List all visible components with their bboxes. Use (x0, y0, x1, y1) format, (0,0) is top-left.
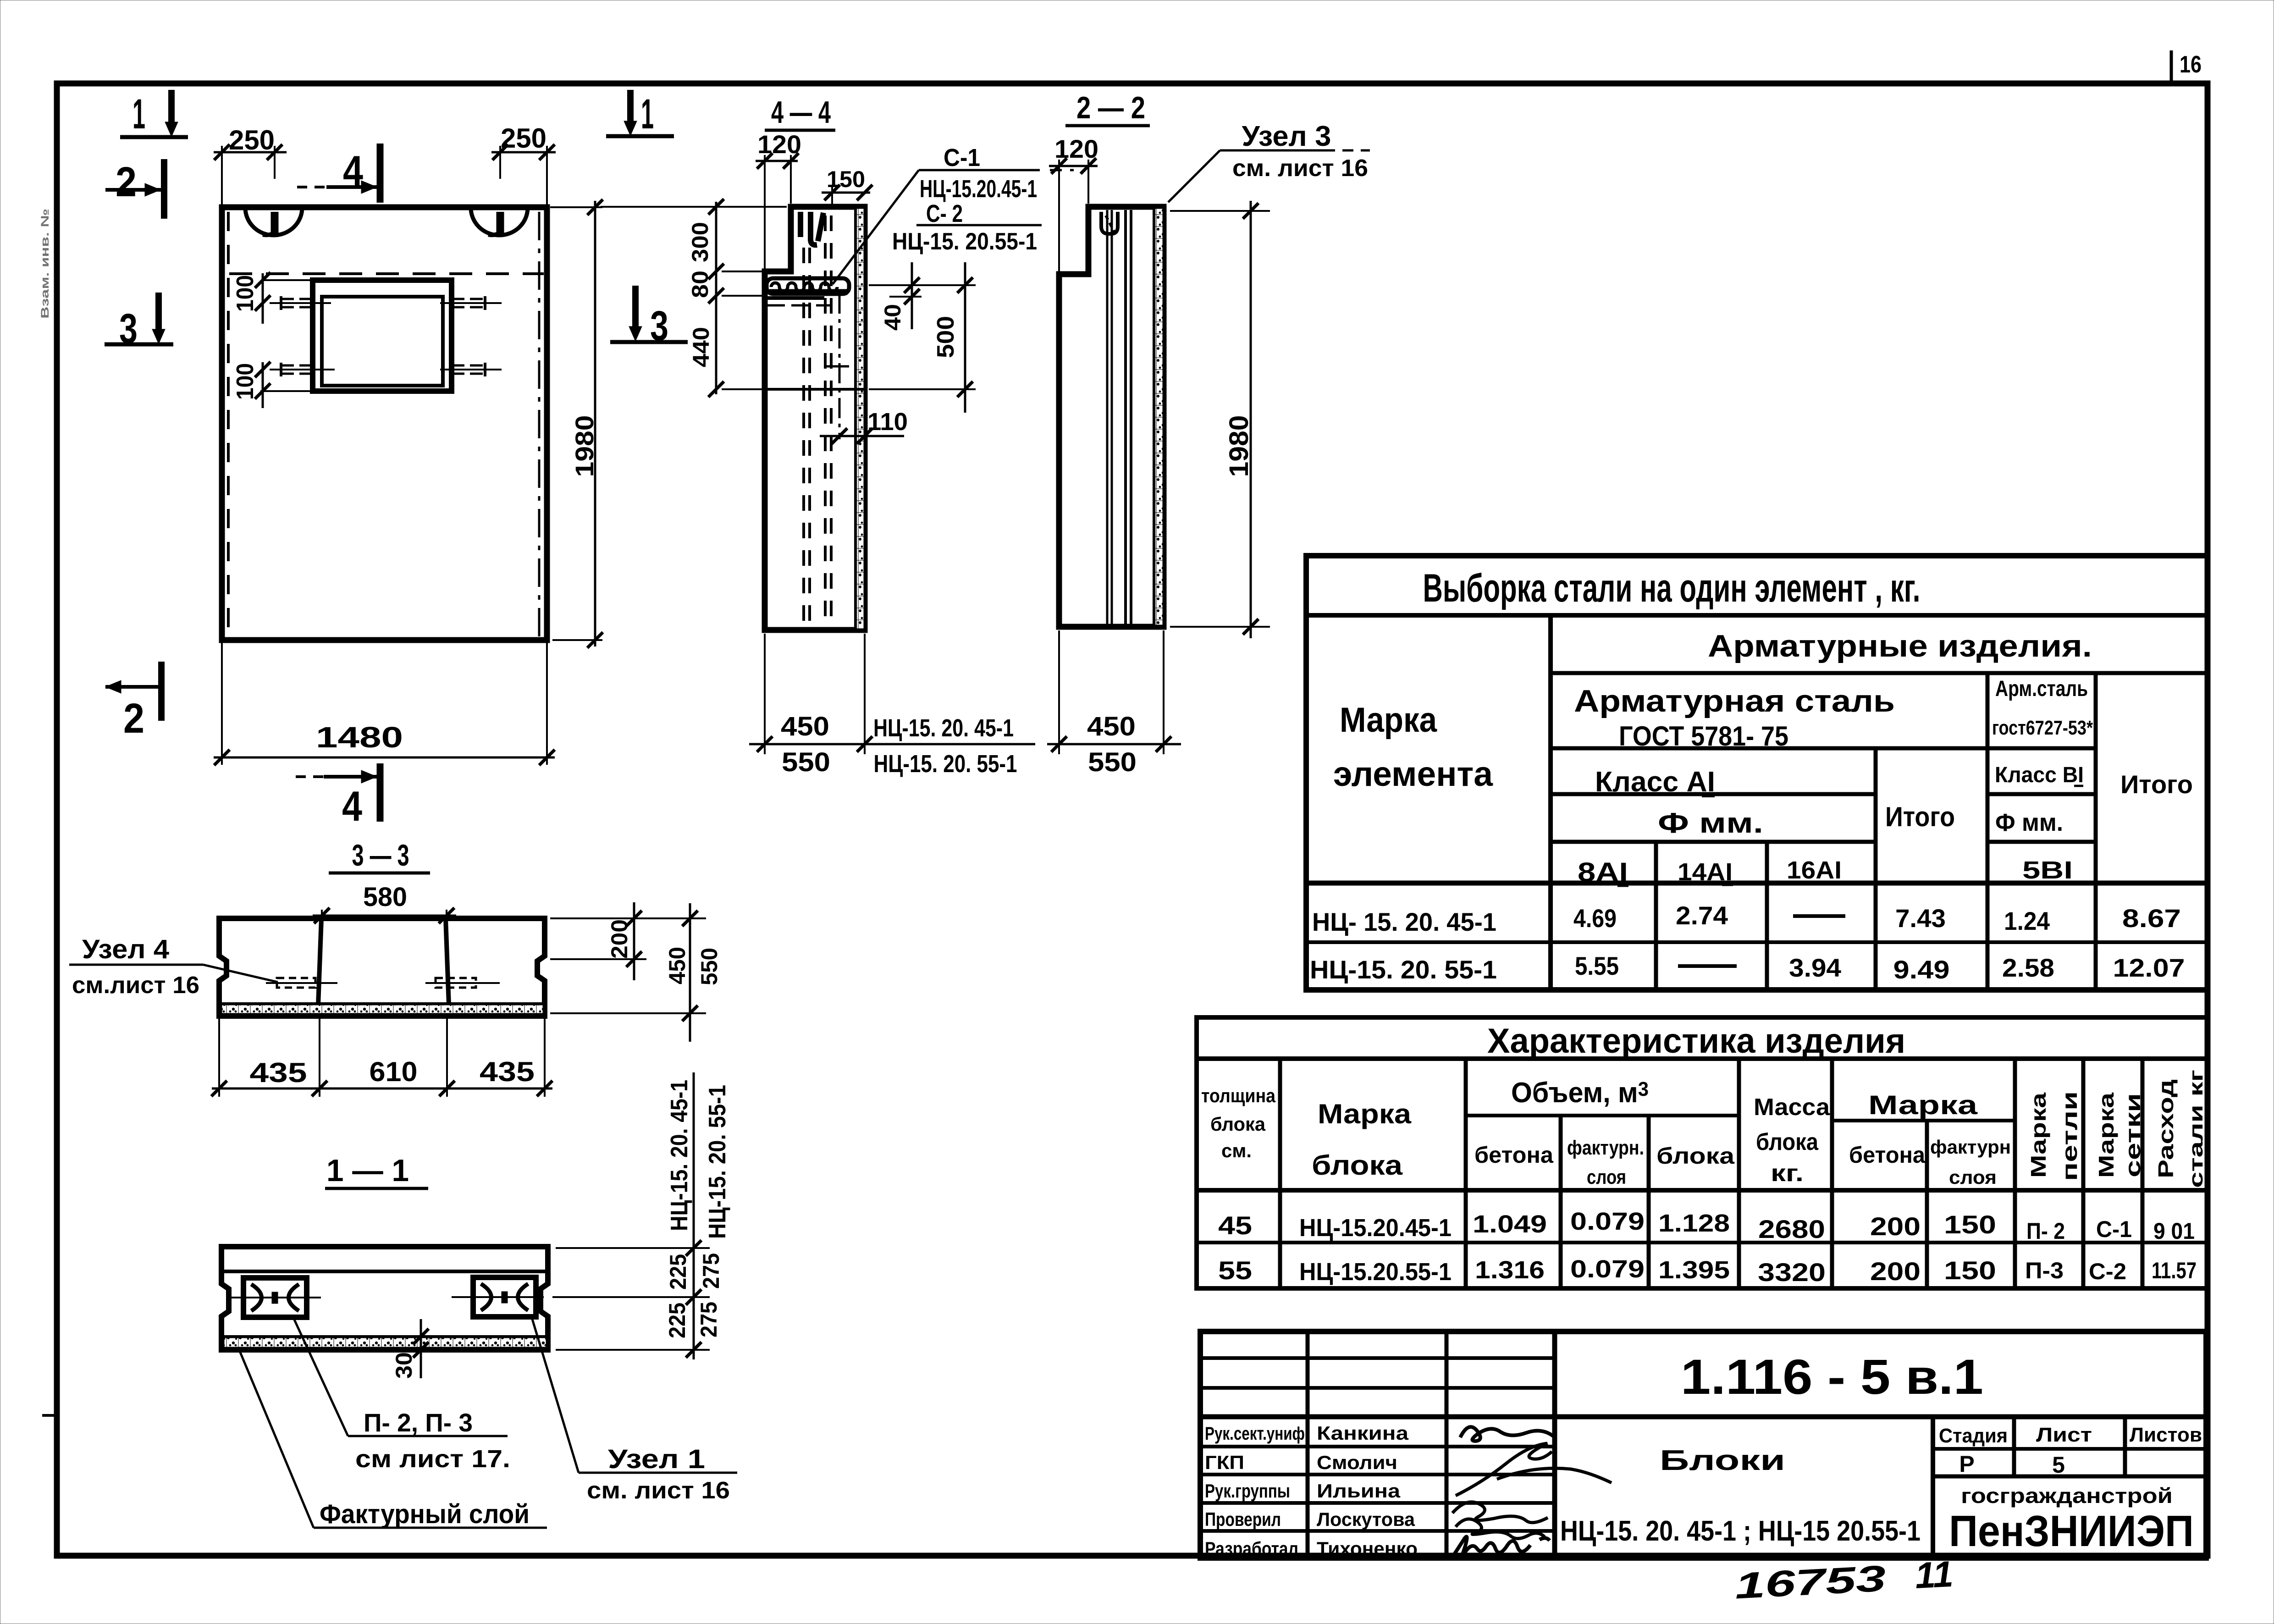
svg-text:Взам. инв. №: Взам. инв. № (39, 209, 51, 319)
svg-text:0.079: 0.079 (1570, 1255, 1645, 1283)
dim chain 300/80/440 (4-4 left) (601, 199, 787, 397)
svg-text:С-2: С-2 (2089, 1259, 2126, 1284)
svg-text:см. лист 16: см. лист 16 (1232, 155, 1368, 182)
svg-text:8АI: 8АI (1578, 857, 1628, 887)
svg-text:1: 1 (641, 91, 654, 138)
table 2 grid lines (1197, 1059, 2208, 1288)
table 1 (steel summary) outer border (1306, 556, 2208, 990)
label Фактурный слой (320, 1499, 530, 1529)
signature row 4 (1456, 1519, 1545, 1539)
svg-text:Класс ВI: Класс ВI (1995, 763, 2084, 787)
svg-text:Расход: Расход (2154, 1079, 2178, 1178)
svg-text:Ф мм.: Ф мм. (1995, 809, 2063, 836)
svg-text:Ф мм.: Ф мм. (1658, 807, 1763, 839)
svg-text:Листов: Листов (2130, 1424, 2202, 1446)
svg-text:С-1: С-1 (944, 144, 980, 171)
section 3-3 facing layer strip (222, 1004, 543, 1014)
title block outer border (1200, 1331, 2206, 1558)
anchor prong lower-right (440, 363, 502, 376)
svg-text:150: 150 (1944, 1256, 1996, 1285)
table 2 header: фактурн. слоя (объем) (1567, 1137, 1644, 1188)
label П-2, П-3 (355, 1408, 510, 1473)
table 2 header: Марка сетки (rotated) (2094, 1092, 2145, 1178)
svg-text:150: 150 (1944, 1210, 1996, 1239)
svg-text:4: 4 (343, 148, 363, 194)
svg-text:ГОСТ 5781- 75: ГОСТ 5781- 75 (1619, 721, 1788, 751)
svg-text:2 — 2: 2 — 2 (1076, 90, 1145, 125)
table 2 header: бетона (марка) (1849, 1142, 1926, 1168)
svg-text:450: 450 (1087, 712, 1136, 741)
svg-text:225: 225 (664, 1303, 690, 1338)
label node 1 (587, 1444, 730, 1504)
table 2 header: толщина блока см (1201, 1085, 1276, 1161)
svg-text:П-3: П-3 (2025, 1258, 2064, 1283)
svg-text:1980: 1980 (570, 415, 599, 477)
svg-text:120: 120 (757, 130, 801, 159)
table 2 header: фактурн слоя (марка) (1930, 1136, 2011, 1188)
table 2 header: блока (объем) (1656, 1143, 1735, 1169)
section 4-4 rebar dashed pair 1 (804, 248, 810, 626)
svg-text:Ильина: Ильина (1317, 1480, 1401, 1502)
dim 150 (4-4) (822, 166, 872, 209)
svg-text:5ВI: 5ВI (2022, 856, 2073, 884)
dim 1980 (front view) (550, 199, 603, 648)
svg-text:225: 225 (665, 1254, 691, 1290)
dim 450/550 (2-2 bottom) (1047, 630, 1181, 777)
svg-text:Выборка стали на один элем: Выборка стали на один элемент , кг. (1423, 566, 1921, 610)
label C-2 (926, 200, 963, 227)
svg-text:2.58: 2.58 (2002, 953, 2054, 982)
svg-text:Итого: Итого (2120, 770, 2193, 799)
svg-text:16АI: 16АI (1787, 856, 1842, 884)
svg-text:петли: петли (2058, 1091, 2081, 1181)
section 2-2 inner vertical lines pair 1 (1107, 210, 1112, 624)
svg-text:см лист 17.: см лист 17. (355, 1445, 510, 1473)
svg-text:блока: блока (1656, 1143, 1735, 1169)
dim 120 (2-2) (1049, 134, 1098, 271)
svg-text:1.128: 1.128 (1658, 1210, 1730, 1237)
svg-text:440: 440 (688, 327, 714, 367)
svg-text:НЦ-15. 20. 45-1: НЦ-15. 20. 45-1 (666, 1080, 693, 1231)
dim 120 (4-4) (756, 130, 801, 269)
title block: Блоки (1660, 1445, 1785, 1476)
title block: Р / 5 (1959, 1451, 2065, 1478)
svg-text:80: 80 (687, 271, 713, 298)
svg-text:см.лист 16: см.лист 16 (72, 972, 199, 999)
svg-text:блока: блока (1756, 1129, 1819, 1155)
svg-text:1 — 1: 1 — 1 (326, 1153, 409, 1188)
table 1 header: 14АI (1678, 858, 1733, 886)
section 4-4 outline (765, 207, 865, 630)
table 1 header: 5ВI (2022, 856, 2073, 884)
section 4-4 title (765, 95, 835, 130)
svg-text:610: 610 (370, 1056, 418, 1087)
section 4-4 dash-dot axis line (839, 293, 841, 439)
section 3-3 rib right (446, 918, 449, 1005)
svg-text:Рук.сект.униф: Рук.сект.униф (1205, 1424, 1305, 1444)
section 2-2 title (1065, 90, 1150, 126)
title block row labels (1205, 1424, 1305, 1559)
section marker 4 top (297, 144, 380, 203)
svg-text:200: 200 (607, 919, 632, 959)
svg-text:30: 30 (391, 1352, 417, 1379)
svg-text:450: 450 (664, 947, 690, 984)
signature row 1 (1460, 1427, 1554, 1441)
anchor prong upper-right (440, 296, 502, 310)
table 1 header: Итого right (2120, 770, 2193, 799)
front view: left dashed edge line (227, 212, 230, 637)
svg-text:НЦ-15. 20.55-1: НЦ-15. 20.55-1 (892, 228, 1037, 255)
svg-text:1980: 1980 (1224, 415, 1254, 477)
leader node 1 (532, 1318, 737, 1473)
lifting loop right (arc) (471, 208, 528, 235)
dim 1980 (2-2) (1170, 201, 1270, 638)
svg-text:1480: 1480 (316, 721, 403, 754)
svg-text:НЦ-15. 20. 55-1: НЦ-15. 20. 55-1 (874, 750, 1017, 778)
svg-text:500: 500 (933, 316, 959, 358)
signature row 5 (1452, 1537, 1550, 1560)
section 1-1 top inner line (221, 1270, 548, 1273)
svg-text:Арматурная сталь: Арматурная сталь (1574, 684, 1895, 718)
svg-text:Итого: Итого (1885, 801, 1955, 832)
section 1-1 anchor box right (452, 1277, 544, 1317)
svg-text:450: 450 (781, 712, 829, 741)
svg-text:Канкина: Канкина (1317, 1422, 1409, 1444)
svg-text:НЦ-15.20.45-1: НЦ-15.20.45-1 (920, 175, 1037, 203)
table 1 header: 8АI (1578, 857, 1628, 887)
svg-text:Марка: Марка (2094, 1092, 2118, 1178)
svg-text:11.57: 11.57 (2152, 1258, 2197, 1283)
svg-text:150: 150 (827, 166, 865, 192)
svg-text:40: 40 (880, 304, 905, 331)
section 1-1 facing layer strip (224, 1337, 546, 1347)
left border tick (42, 1414, 60, 1417)
front view: block outline (222, 207, 547, 640)
svg-text:кг.: кг. (1771, 1160, 1804, 1187)
svg-text:Узел 3: Узел 3 (1242, 121, 1331, 152)
svg-text:200: 200 (1870, 1257, 1921, 1286)
label НЦ-15.20.55-1 (bottom 4-4) (874, 750, 1017, 778)
svg-text:С- 2: С- 2 (926, 200, 963, 227)
section marker 1 top-left (120, 90, 188, 138)
svg-text:9.49: 9.49 (1893, 955, 1950, 984)
svg-text:1.24: 1.24 (2004, 906, 2050, 935)
svg-text:Марка: Марка (1340, 701, 1437, 740)
svg-text:блока: блока (1210, 1113, 1266, 1135)
section 3-3 title (329, 838, 430, 873)
svg-text:275: 275 (696, 1302, 722, 1337)
left margin stamp text (39, 209, 51, 319)
svg-text:7.43: 7.43 (1895, 904, 1946, 933)
svg-text:14АI: 14АI (1678, 858, 1733, 886)
svg-text:12.07: 12.07 (2113, 953, 2185, 982)
svg-text:3 — 3: 3 — 3 (352, 838, 409, 872)
table 2 header: бетона (объем) (1474, 1142, 1554, 1168)
section 4-4 loop anchor at top (800, 212, 823, 245)
svg-text:435: 435 (250, 1057, 307, 1088)
label C-1 (944, 144, 980, 171)
svg-text:Р: Р (1959, 1451, 1974, 1477)
svg-text:2.74: 2.74 (1676, 901, 1728, 930)
dim 200 (3-3 right) (550, 902, 646, 980)
lifting loop left (arc) (245, 208, 302, 235)
svg-text:Смолич: Смолич (1317, 1452, 1397, 1473)
svg-text:Объем, м3: Объем, м3 (1511, 1077, 1649, 1109)
dim 435/610/435 (3-3 bottom) (211, 1016, 552, 1097)
table 1 header: Арматурная сталь ГОСТ 5781-75 (1574, 684, 1895, 751)
svg-text:гост6727-53*: гост6727-53* (1992, 717, 2093, 739)
label НЦ-15.20.55-1 (C-2) (892, 228, 1037, 255)
svg-text:фактурн: фактурн (1930, 1136, 2011, 1158)
svg-text:Блоки: Блоки (1660, 1445, 1785, 1476)
section 1-1 title (325, 1153, 428, 1188)
label НЦ-15.20.45-1 (bottom 4-4) (873, 714, 1014, 742)
dim 100 upper (232, 272, 316, 324)
svg-text:сетки: сетки (2121, 1093, 2145, 1177)
section 4-4 mesh C-1 element (767, 278, 849, 294)
svg-text:Рук.группы: Рук.группы (1205, 1480, 1290, 1502)
section 3-3 outline (219, 918, 545, 1016)
table 1 header: Класс АI (1595, 766, 1715, 798)
svg-text:Проверил: Проверил (1205, 1508, 1281, 1530)
front view: horizontal dashed line (229, 272, 544, 275)
svg-text:1.395: 1.395 (1658, 1256, 1730, 1284)
table 2 header: Расход стали кг (rotated) (2154, 1070, 2207, 1188)
table 2 header: Марка петли (rotated) (2026, 1091, 2081, 1181)
svg-text:Марка: Марка (1318, 1099, 1412, 1129)
dim 1480 (214, 643, 555, 765)
svg-text:4.69: 4.69 (1573, 904, 1617, 933)
dim 30 (1-1) (391, 1319, 429, 1379)
svg-text:НЦ-15.20.55-1: НЦ-15.20.55-1 (1299, 1258, 1452, 1286)
svg-text:Марка: Марка (2026, 1092, 2050, 1178)
svg-text:Разработал: Разработал (1205, 1538, 1298, 1559)
table 2 header: Масса блока кг (1754, 1094, 1830, 1187)
svg-text:16: 16 (2180, 51, 2202, 78)
section 2-2 loop anchor mark (1101, 212, 1118, 234)
svg-text:НЦ-15. 20. 45-1: НЦ-15. 20. 45-1 (873, 714, 1014, 742)
table 2 header: Объем м3 (1511, 1077, 1649, 1109)
svg-text:100: 100 (232, 275, 259, 312)
dim 580 (3-3 top) (313, 882, 456, 923)
svg-text:0.079: 0.079 (1570, 1208, 1645, 1235)
svg-text:бетона: бетона (1849, 1142, 1926, 1168)
table 2 title (1487, 1022, 1905, 1061)
svg-text:580: 580 (363, 882, 407, 912)
svg-text:фактурн.: фактурн. (1567, 1137, 1644, 1159)
leader П-2 П-3 (293, 1318, 508, 1436)
svg-text:госгражданстрой: госгражданстрой (1961, 1484, 2173, 1508)
title block grid (1200, 1331, 2206, 1558)
svg-text:слоя: слоя (1587, 1166, 1626, 1188)
svg-text:С-1: С-1 (2096, 1216, 2132, 1242)
dim 450/550 (4-4 bottom) (749, 634, 1035, 777)
dim 250 left (214, 125, 287, 204)
title block: Госгражданстрой (1961, 1484, 2173, 1508)
svg-text:5: 5 (2052, 1452, 2065, 1478)
svg-text:Характеристика изделия: Характеристика изделия (1487, 1022, 1905, 1061)
svg-text:Класс АI: Класс АI (1595, 766, 1715, 798)
section 4-4 facing layer strip (856, 207, 864, 630)
section 1-1 anchor box left (232, 1278, 321, 1317)
table 2 row 1 (1218, 1208, 2195, 1244)
svg-text:3: 3 (119, 305, 138, 352)
node 3 label leader (1168, 150, 1370, 202)
section marker 3 right (610, 286, 688, 349)
svg-text:550: 550 (696, 948, 722, 985)
section marker 1 top-right (606, 90, 674, 138)
svg-text:ПенЗНИИЭП: ПенЗНИИЭП (1949, 1507, 2194, 1556)
table 2 row 2 (1218, 1255, 2197, 1287)
svg-text:4: 4 (342, 783, 362, 830)
svg-text:3: 3 (650, 303, 668, 349)
svg-text:200: 200 (1870, 1212, 1921, 1241)
svg-text:П- 2: П- 2 (2026, 1218, 2065, 1244)
svg-text:Узел 4: Узел 4 (82, 934, 169, 964)
svg-text:НЦ-15. 20. 55-1: НЦ-15. 20. 55-1 (1310, 955, 1497, 984)
svg-text:4 — 4: 4 — 4 (771, 95, 831, 130)
section 2-2 outline (1059, 207, 1164, 627)
svg-text:2680: 2680 (1758, 1215, 1825, 1243)
section 3-3 anchor loop left (dashed) (266, 978, 337, 988)
svg-text:110: 110 (867, 408, 908, 436)
signature rows 2-3 flourish (1452, 1443, 1612, 1523)
page number tick (2170, 50, 2173, 84)
page number 16 (2180, 51, 2202, 78)
table 1 grid lines (1306, 615, 2208, 990)
table 1 row 1: mark НЦ-15.20.45-1 (1312, 907, 1496, 936)
title block: ПензНИИЭП (1949, 1507, 2194, 1556)
svg-text:100: 100 (232, 363, 259, 400)
section 3-3 anchor loop right (dashed) (425, 978, 500, 988)
svg-text:1.316: 1.316 (1475, 1256, 1545, 1284)
table 1 header: 16АI (1787, 856, 1842, 884)
svg-text:ГКП: ГКП (1205, 1452, 1244, 1473)
svg-text:9 01: 9 01 (2153, 1218, 2195, 1244)
svg-text:8.67: 8.67 (2122, 904, 2181, 933)
svg-text:Фактурный слой: Фактурный слой (320, 1499, 530, 1529)
dim 110 (4-4) (820, 408, 908, 444)
label НЦ-15.20.45-1 (C-1) (920, 175, 1037, 203)
svg-text:45: 45 (1218, 1211, 1252, 1240)
title block: document number 1.116-5в.1 (1681, 1349, 1983, 1404)
svg-text:НЦ-15. 20. 55-1: НЦ-15. 20. 55-1 (704, 1085, 731, 1239)
svg-text:5.55: 5.55 (1575, 951, 1619, 980)
svg-text:250: 250 (501, 123, 546, 154)
section 2-2 inner vertical lines pair 2 (1126, 210, 1131, 624)
section 4-4 horizontal body line (765, 388, 865, 391)
section 2-2 facing layer strip (1154, 207, 1163, 627)
svg-text:Арм.сталь: Арм.сталь (1995, 677, 2088, 701)
section marker 3 left (105, 293, 173, 352)
section 4-4 rebar dashed pair 2 (825, 215, 831, 626)
svg-text:Марка: Марка (1868, 1090, 1978, 1120)
table 1 header: Арматурные изделия (1708, 629, 2092, 663)
table 1 header: Марка элемента (1333, 701, 1493, 794)
svg-text:3.94: 3.94 (1789, 953, 1841, 982)
svg-text:2: 2 (123, 695, 144, 742)
section 4-4 ledge lines (765, 298, 830, 305)
dim 250 right (491, 123, 556, 204)
svg-text:стали кг: стали кг (2185, 1070, 2207, 1188)
svg-text:НЦ-15. 20. 45-1 ; НЦ-15 20.55: НЦ-15. 20. 45-1 ; НЦ-15 20.55-1 (1560, 1515, 1921, 1547)
label C-2 underline (916, 224, 1042, 226)
front view: right dash-dot edge line (538, 212, 541, 637)
label НЦ-15.20.45-1 (rotated, 1-1) (666, 1080, 693, 1231)
title block names (1317, 1422, 1418, 1559)
section marker 2 top-left (105, 159, 164, 219)
leader to C-1 / C-2 labels (833, 170, 1074, 284)
opening: inner rectangle (322, 297, 443, 386)
anchor prong lower-left (270, 363, 335, 376)
svg-text:550: 550 (1088, 747, 1137, 777)
svg-text:элемента: элемента (1333, 755, 1493, 794)
section marker 2 bottom-left (105, 662, 161, 742)
dim 500 (4-4 right) (869, 262, 976, 413)
svg-text:120: 120 (1054, 134, 1098, 163)
svg-text:Лист: Лист (2036, 1424, 2092, 1446)
section marker 4 bottom (296, 763, 380, 830)
svg-text:1.049: 1.049 (1473, 1210, 1547, 1238)
section 4-4 short line 110 level (825, 365, 849, 368)
svg-text:см. лист 16: см. лист 16 (587, 1477, 730, 1504)
dim 225/275 chain (1-1 right) (552, 1072, 724, 1359)
svg-text:Арматурные изделия.: Арматурные изделия. (1708, 629, 2092, 663)
node 4 label (69, 934, 278, 999)
table 1 header: Ф мм. left (1658, 807, 1763, 839)
svg-text:55: 55 (1218, 1256, 1252, 1285)
svg-text:300: 300 (687, 222, 713, 262)
svg-text:слоя: слоя (1949, 1166, 1997, 1188)
svg-text:НЦ- 15. 20. 45-1: НЦ- 15. 20. 45-1 (1312, 907, 1496, 936)
svg-text:П- 2, П- 3: П- 2, П- 3 (364, 1408, 473, 1437)
svg-text:2: 2 (116, 159, 137, 205)
table 1 header: Арм.сталь ГОСТ6727-53 (1992, 677, 2093, 739)
svg-text:275: 275 (698, 1253, 724, 1289)
table 1 title (1423, 566, 1921, 610)
table 1 row 2: mark НЦ-15.20.55-1 (1310, 955, 1497, 984)
section 1-1 outline (221, 1247, 548, 1350)
table 2 header: Марка (group) (1868, 1090, 1978, 1120)
svg-text:Лоскутова: Лоскутова (1317, 1508, 1415, 1530)
anchor prong upper-left (270, 296, 331, 310)
svg-text:толщина: толщина (1201, 1085, 1276, 1106)
dim 100 lower (232, 362, 319, 408)
svg-text:Стадия: Стадия (1939, 1425, 2008, 1447)
table 1 header: Итого middle (1885, 801, 1955, 832)
dim 40 (4-4 right) (869, 262, 976, 331)
svg-text:НЦ-15.20.45-1: НЦ-15.20.45-1 (1299, 1214, 1452, 1242)
handwritten inventory number 16753 11 (1733, 1553, 1954, 1607)
svg-text:бетона: бетона (1474, 1142, 1554, 1168)
opening: outer rectangle (313, 280, 452, 391)
title block: marks line (1560, 1515, 1921, 1547)
section 3-3 rib left (318, 918, 321, 1005)
svg-text:1: 1 (132, 91, 145, 138)
svg-text:3320: 3320 (1758, 1258, 1826, 1287)
svg-text:435: 435 (480, 1056, 535, 1087)
title block: Стадия Лист Листов (1939, 1424, 2202, 1447)
svg-text:Тихоненко: Тихоненко (1317, 1538, 1418, 1559)
node 3 label text (1232, 121, 1368, 182)
table 1 header: Ф мм. right (1995, 809, 2063, 836)
svg-text:блока: блока (1312, 1150, 1403, 1181)
leader facing layer (238, 1348, 547, 1528)
svg-text:16753: 16753 (1733, 1558, 1887, 1606)
table 2 header: Марка блока (1312, 1099, 1412, 1181)
table 1 row 1 values (1573, 901, 2181, 935)
svg-text:Узел 1: Узел 1 (608, 1444, 705, 1474)
